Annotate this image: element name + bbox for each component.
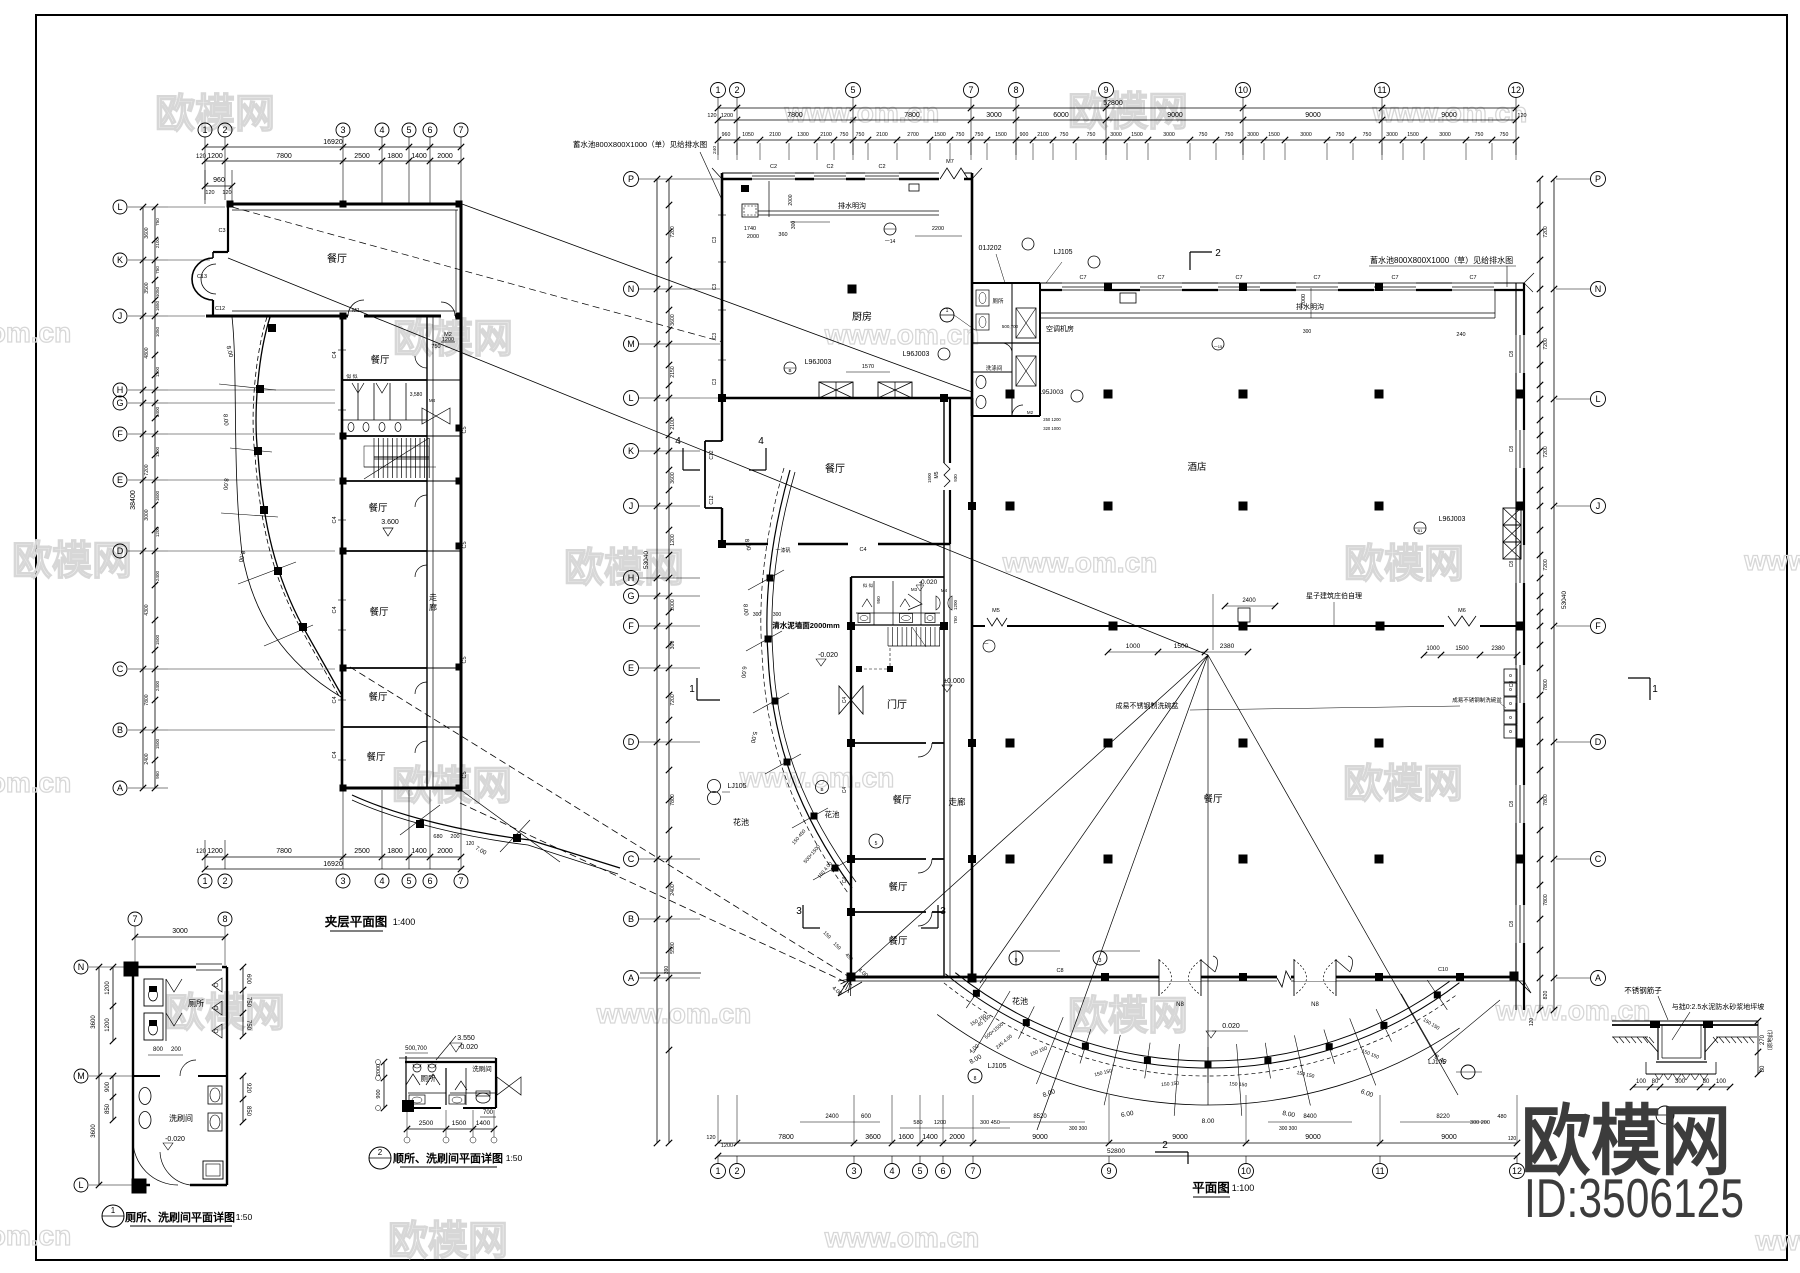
svg-text:1570: 1570	[862, 364, 874, 370]
svg-text:3600: 3600	[144, 227, 150, 238]
svg-text:1650: 1650	[155, 300, 160, 311]
svg-text:排水明沟: 排水明沟	[838, 201, 866, 210]
svg-text:7800: 7800	[1543, 794, 1549, 806]
svg-text:餐厅: 餐厅	[892, 794, 912, 806]
svg-text:600: 600	[245, 974, 251, 985]
svg-text:1200: 1200	[155, 366, 160, 377]
svg-text:顺所、洗刷间平面详图: 顺所、洗刷间平面详图	[393, 1151, 503, 1165]
svg-text:www.om.cn: www.om.cn	[824, 1222, 980, 1253]
svg-text:6000: 6000	[1053, 112, 1069, 119]
svg-text:M6: M6	[1458, 608, 1466, 614]
svg-text:3500: 3500	[144, 282, 150, 293]
svg-text:1: 1	[689, 684, 695, 695]
svg-text:38400: 38400	[130, 490, 137, 510]
svg-text:5: 5	[875, 841, 878, 847]
svg-text:www.om.cn: www.om.cn	[824, 319, 980, 350]
svg-text:240: 240	[712, 146, 718, 154]
svg-text:J: J	[629, 501, 634, 511]
svg-text:C4: C4	[332, 696, 338, 703]
svg-text:1: 1	[111, 1206, 116, 1215]
svg-text:7800: 7800	[276, 153, 292, 160]
svg-text:C4: C4	[842, 787, 848, 794]
svg-text:16920: 16920	[323, 139, 343, 146]
svg-text:似 似: 似 似	[346, 374, 357, 380]
svg-text:2400: 2400	[155, 680, 160, 691]
svg-text:M3: M3	[911, 587, 918, 592]
svg-text:1: 1	[946, 308, 949, 314]
svg-text:6: 6	[427, 876, 432, 886]
svg-text:100: 100	[1636, 1079, 1647, 1085]
svg-text:洗涤间: 洗涤间	[986, 364, 1003, 372]
svg-text:300: 300	[791, 221, 797, 230]
svg-text:餐厅: 餐厅	[368, 691, 388, 703]
svg-text:C3: C3	[712, 379, 718, 386]
svg-text:01J202: 01J202	[979, 245, 1002, 252]
svg-text:2400: 2400	[670, 884, 676, 896]
svg-text:1300: 1300	[797, 132, 809, 138]
svg-text:C2: C2	[878, 164, 885, 170]
svg-text:om.cn: om.cn	[0, 317, 71, 348]
svg-text:11: 11	[1375, 1166, 1384, 1176]
svg-text:欧模网: 欧模网	[564, 546, 684, 590]
svg-text:www.om.cn: www.om.cn	[739, 762, 895, 793]
svg-text:1: 1	[202, 876, 207, 886]
svg-text:空调机房: 空调机房	[1046, 324, 1074, 333]
svg-text:920: 920	[245, 1083, 251, 1094]
svg-text:7200: 7200	[1543, 338, 1549, 350]
svg-text:900: 900	[1020, 132, 1029, 138]
svg-text:1800: 1800	[387, 153, 403, 160]
svg-text:4300: 4300	[144, 604, 150, 615]
svg-text:3000: 3000	[1110, 132, 1122, 138]
svg-text:8220: 8220	[1436, 1114, 1450, 1120]
svg-text:960: 960	[722, 132, 731, 138]
svg-text:52800: 52800	[1103, 100, 1123, 107]
svg-text:K: K	[117, 255, 123, 265]
svg-text:52800: 52800	[1107, 1148, 1125, 1155]
svg-text:100: 100	[1716, 1079, 1727, 1085]
svg-text:走: 走	[429, 593, 437, 602]
svg-text:2: 2	[1162, 1140, 1168, 1151]
svg-text:1500: 1500	[1174, 643, 1189, 650]
svg-text:6: 6	[940, 1166, 945, 1176]
svg-text:1400: 1400	[476, 1120, 491, 1127]
svg-text:7800: 7800	[1543, 894, 1549, 906]
svg-text:C8: C8	[1509, 681, 1515, 688]
svg-text:1200: 1200	[105, 981, 111, 995]
svg-text:5: 5	[917, 1166, 922, 1176]
svg-text:L95J003: L95J003	[1039, 389, 1064, 396]
svg-text:D: D	[1595, 737, 1602, 747]
svg-text:750: 750	[245, 997, 251, 1008]
svg-text:3000: 3000	[172, 928, 188, 935]
svg-text:3: 3	[851, 1166, 856, 1176]
svg-text:1500: 1500	[1268, 132, 1280, 138]
svg-text:欧模网: 欧模网	[1068, 994, 1188, 1038]
svg-text:1: 1	[1652, 684, 1658, 695]
svg-text:1200: 1200	[105, 1018, 111, 1032]
svg-text:8: 8	[1013, 85, 1018, 95]
svg-text:D: D	[628, 737, 635, 747]
svg-text:7200: 7200	[144, 464, 150, 475]
svg-text:与拙0:2.5水泥防水砂浆地坪坡: 与拙0:2.5水泥防水砂浆地坪坡	[1672, 1002, 1765, 1011]
svg-text:3: 3	[796, 906, 802, 917]
svg-text:600: 600	[861, 1114, 872, 1120]
svg-text:3600: 3600	[670, 314, 676, 326]
svg-text:120: 120	[196, 154, 207, 160]
svg-text:200: 200	[171, 1047, 182, 1053]
svg-text:C3: C3	[218, 228, 225, 234]
svg-text:7: 7	[458, 125, 463, 135]
svg-text:16920: 16920	[323, 861, 343, 868]
svg-text:C7: C7	[1313, 275, 1320, 281]
svg-text:7200: 7200	[1543, 226, 1549, 238]
svg-text:餐厅: 餐厅	[888, 881, 908, 893]
svg-text:750: 750	[1199, 132, 1208, 138]
svg-text:厕所: 厕所	[992, 297, 1004, 305]
svg-text:L: L	[117, 202, 122, 212]
svg-text:8: 8	[222, 914, 227, 924]
svg-text:120: 120	[707, 113, 716, 119]
svg-text:850: 850	[105, 1103, 111, 1114]
svg-text:6: 6	[427, 125, 432, 135]
svg-text:900: 900	[105, 1081, 111, 1092]
svg-text:酒店: 酒店	[1187, 461, 1206, 473]
svg-text:1500: 1500	[995, 132, 1007, 138]
svg-text:夹层平面图: 夹层平面图	[325, 914, 388, 929]
svg-text:餐厅: 餐厅	[366, 751, 386, 763]
svg-text:C7: C7	[1079, 275, 1086, 281]
svg-text:3000: 3000	[1163, 132, 1175, 138]
svg-text:320 1000: 320 1000	[1043, 426, 1061, 431]
svg-text:3600: 3600	[91, 1015, 97, 1029]
svg-text:E: E	[117, 475, 123, 485]
svg-text:3000: 3000	[986, 112, 1002, 119]
svg-text:7800: 7800	[1543, 679, 1549, 691]
svg-text:120: 120	[1517, 113, 1526, 119]
svg-text:-0.020: -0.020	[165, 1136, 185, 1143]
svg-text:2000: 2000	[437, 153, 453, 160]
svg-text:C12: C12	[709, 495, 715, 504]
svg-text:C4: C4	[842, 697, 848, 704]
svg-text:清水泥墙面2000mm: 清水泥墙面2000mm	[772, 620, 840, 630]
svg-text:一14: 一14	[885, 239, 896, 245]
svg-text:P: P	[1595, 174, 1601, 184]
svg-text:950: 950	[876, 596, 881, 604]
svg-text:LJ105: LJ105	[1053, 249, 1072, 256]
svg-text:1400: 1400	[922, 1134, 938, 1141]
svg-text:1:100: 1:100	[1232, 1183, 1255, 1193]
svg-text:C7: C7	[1157, 275, 1164, 281]
svg-text:9000: 9000	[1441, 1134, 1457, 1141]
svg-text:欧模网: 欧模网	[388, 1219, 508, 1263]
svg-text:C4: C4	[332, 751, 338, 758]
svg-text:平面图: 平面图	[1192, 1181, 1230, 1195]
svg-text:3: 3	[340, 125, 345, 135]
svg-text:3: 3	[1099, 958, 1102, 964]
svg-text:9000: 9000	[1305, 112, 1321, 119]
svg-text:C4: C4	[859, 547, 866, 553]
svg-text:1200: 1200	[155, 446, 160, 457]
svg-text:120: 120	[222, 190, 231, 196]
svg-text:53040: 53040	[1561, 591, 1568, 609]
svg-text:C8: C8	[1509, 446, 1515, 453]
svg-text:H: H	[117, 385, 124, 395]
svg-text:2000: 2000	[376, 1064, 382, 1076]
svg-text:7: 7	[968, 85, 973, 95]
svg-text:300 450: 300 450	[980, 1120, 1000, 1126]
svg-text:www.o: www.o	[1743, 545, 1800, 576]
svg-text:L96J003: L96J003	[1439, 516, 1466, 523]
svg-text:C5: C5	[462, 771, 468, 778]
svg-text:2100: 2100	[820, 132, 832, 138]
svg-text:200: 200	[450, 834, 459, 840]
svg-text:500,700: 500,700	[405, 1046, 427, 1052]
svg-text:B: B	[628, 914, 634, 924]
svg-text:300 300: 300 300	[1279, 1126, 1297, 1132]
svg-text:7200: 7200	[670, 694, 676, 706]
svg-text:1200: 1200	[155, 526, 160, 537]
svg-text:750: 750	[856, 132, 865, 138]
svg-text:7200: 7200	[1543, 559, 1549, 571]
svg-text:750: 750	[1500, 132, 1509, 138]
svg-text:9: 9	[1106, 1166, 1111, 1176]
svg-text:500,700: 500,700	[1002, 324, 1019, 329]
svg-text:7: 7	[458, 876, 463, 886]
svg-text:1000: 1000	[1126, 643, 1141, 650]
svg-text:750: 750	[840, 132, 849, 138]
svg-text:1200: 1200	[721, 113, 733, 119]
svg-text:M7: M7	[946, 159, 954, 165]
svg-text:8.00: 8.00	[221, 414, 228, 427]
svg-text:8.00: 8.00	[741, 604, 748, 617]
svg-text:2: 2	[734, 1166, 739, 1176]
svg-text:2100: 2100	[1037, 132, 1049, 138]
svg-text:53040: 53040	[643, 551, 650, 569]
svg-text:270: 270	[1760, 1034, 1766, 1045]
svg-text:门厅: 门厅	[887, 698, 907, 711]
svg-text:星子建筑庄伯自理: 星子建筑庄伯自理	[1306, 591, 1362, 600]
svg-text:1400: 1400	[411, 153, 427, 160]
svg-text:10: 10	[1241, 1166, 1251, 1176]
svg-text:欧模网: 欧模网	[155, 92, 275, 136]
svg-text:C8: C8	[1509, 351, 1515, 358]
svg-text:2000: 2000	[670, 599, 676, 611]
svg-text:C4: C4	[332, 606, 338, 613]
svg-text:不锈钢筋子: 不锈钢筋子	[1624, 985, 1662, 995]
svg-text:www.om.cn: www.om.cn	[1002, 547, 1158, 578]
svg-text:1500: 1500	[1131, 132, 1143, 138]
svg-text:9000: 9000	[1305, 1134, 1321, 1141]
svg-text:5: 5	[406, 876, 411, 886]
svg-text:J: J	[1596, 501, 1601, 511]
svg-text:J: J	[118, 311, 123, 321]
svg-text:餐厅: 餐厅	[368, 502, 388, 514]
svg-text:300: 300	[1675, 1079, 1686, 1085]
svg-text:1050: 1050	[742, 132, 754, 138]
svg-text:B1: B1	[1418, 528, 1424, 533]
svg-text:7800: 7800	[778, 1134, 794, 1141]
svg-text:C4: C4	[332, 516, 338, 523]
svg-text:C5: C5	[462, 426, 468, 433]
svg-text:7800: 7800	[276, 848, 292, 855]
svg-text:3000: 3000	[1439, 132, 1451, 138]
svg-text:7200: 7200	[1543, 446, 1549, 458]
svg-text:2700: 2700	[907, 132, 919, 138]
svg-text:3600: 3600	[91, 1124, 97, 1138]
svg-text:750: 750	[956, 132, 965, 138]
svg-text:走廊: 走廊	[948, 797, 966, 807]
svg-text:680: 680	[433, 834, 442, 840]
svg-text:4: 4	[675, 436, 681, 447]
svg-text:120: 120	[466, 841, 475, 847]
svg-text:N: N	[1595, 284, 1602, 294]
svg-text:750: 750	[1475, 132, 1484, 138]
svg-text:4800: 4800	[144, 347, 150, 358]
svg-text:2100: 2100	[769, 132, 781, 138]
svg-text:M2: M2	[1027, 410, 1034, 415]
svg-text:950: 950	[155, 771, 160, 779]
svg-text:300: 300	[1303, 329, 1312, 335]
svg-text:250 1200: 250 1200	[1043, 417, 1061, 422]
svg-text:1500: 1500	[155, 738, 160, 749]
svg-text:H: H	[628, 573, 635, 583]
svg-text:2000: 2000	[1301, 294, 1307, 306]
svg-text:A: A	[117, 783, 123, 793]
svg-text:1: 1	[202, 125, 207, 135]
svg-text:2: 2	[378, 1148, 383, 1157]
svg-text:C2: C2	[826, 164, 833, 170]
svg-text:300: 300	[670, 641, 676, 650]
svg-text:960: 960	[213, 177, 225, 184]
svg-text:1200: 1200	[953, 599, 958, 610]
svg-text:成易不锈钢制洗碗盆: 成易不锈钢制洗碗盆	[1452, 696, 1502, 704]
svg-text:花池: 花池	[1012, 996, 1028, 1006]
svg-text:300: 300	[753, 612, 762, 618]
svg-text:240: 240	[1456, 332, 1465, 338]
svg-text:700: 700	[483, 1110, 494, 1116]
svg-text:C: C	[1595, 854, 1602, 864]
svg-text:C3: C3	[712, 284, 718, 291]
svg-text:2100: 2100	[876, 132, 888, 138]
svg-text:4: 4	[889, 1166, 894, 1176]
svg-text:LJ105: LJ105	[987, 1063, 1006, 1070]
svg-text:L: L	[628, 393, 633, 403]
svg-text:LJ105: LJ105	[1428, 1059, 1446, 1066]
svg-text:欧模网: 欧模网	[1344, 542, 1464, 586]
svg-text:E: E	[628, 663, 634, 673]
svg-text:820: 820	[1543, 991, 1549, 1000]
svg-text:M4: M4	[941, 588, 948, 593]
svg-text:1:400: 1:400	[393, 917, 416, 927]
svg-text:2200: 2200	[932, 226, 944, 232]
svg-text:花池: 花池	[825, 809, 840, 819]
svg-text:750: 750	[1336, 132, 1345, 138]
svg-text:蓄水池800X800X1000（草）见给排水图: 蓄水池800X800X1000（草）见给排水图	[1370, 255, 1513, 265]
svg-text:N: N	[78, 962, 85, 972]
svg-text:2: 2	[734, 85, 739, 95]
svg-text:1200: 1200	[934, 1120, 946, 1126]
svg-text:150 150: 150 150	[1229, 1081, 1248, 1088]
svg-text:M: M	[627, 339, 635, 349]
svg-text:1:50: 1:50	[236, 1212, 253, 1222]
svg-text:9000: 9000	[1167, 112, 1183, 119]
svg-text:2500: 2500	[354, 153, 370, 160]
svg-text:2400: 2400	[155, 570, 160, 581]
svg-text:om.cn: om.cn	[0, 1220, 71, 1251]
svg-text:300 300: 300 300	[1069, 1126, 1087, 1132]
svg-text:2380: 2380	[1491, 646, 1505, 652]
svg-text:±0.000: ±0.000	[943, 678, 964, 685]
svg-text:C7: C7	[1469, 275, 1476, 281]
svg-text:C8: C8	[1056, 968, 1063, 974]
svg-text:6.00: 6.00	[739, 666, 746, 679]
svg-text:3.550: 3.550	[457, 1035, 475, 1042]
svg-text:G: G	[627, 591, 634, 601]
svg-text:厕所: 厕所	[188, 998, 204, 1008]
svg-text:120: 120	[706, 1135, 715, 1141]
svg-text:3,580: 3,580	[410, 392, 423, 398]
svg-text:750: 750	[1087, 132, 1096, 138]
svg-text:D: D	[117, 546, 124, 556]
svg-text:2: 2	[1215, 248, 1221, 259]
svg-text:-0.020: -0.020	[458, 1044, 478, 1051]
svg-text:3600: 3600	[865, 1134, 881, 1141]
svg-text:2000: 2000	[437, 848, 453, 855]
svg-text:2500: 2500	[354, 848, 370, 855]
svg-text:www.om.cn: www.om.cn	[596, 998, 752, 1029]
svg-text:1500: 1500	[934, 132, 946, 138]
svg-text:5500: 5500	[670, 942, 676, 954]
svg-text:M5: M5	[934, 471, 940, 478]
svg-text:餐厅: 餐厅	[370, 354, 390, 366]
svg-text:C8: C8	[1509, 801, 1515, 808]
svg-text:1600: 1600	[898, 1134, 914, 1141]
svg-text:8520: 8520	[1033, 1114, 1047, 1120]
svg-text:C3: C3	[712, 237, 718, 244]
svg-text:7800: 7800	[144, 694, 150, 705]
svg-text:A: A	[1595, 973, 1601, 983]
svg-text:80: 80	[1652, 1079, 1659, 1085]
svg-text:120: 120	[1529, 1018, 1535, 1027]
svg-text:C: C	[117, 664, 124, 674]
svg-text:C7: C7	[1391, 275, 1398, 281]
svg-text:120: 120	[205, 190, 214, 196]
svg-text:1500: 1500	[1455, 646, 1469, 652]
svg-text:2100: 2100	[670, 418, 676, 430]
svg-text:750: 750	[1225, 132, 1234, 138]
svg-text:C3: C3	[712, 333, 718, 340]
svg-text:8400: 8400	[1303, 1114, 1317, 1120]
svg-text:580: 580	[913, 1120, 922, 1126]
svg-text:3.600: 3.600	[381, 519, 399, 526]
svg-text:750: 750	[1363, 132, 1372, 138]
svg-text:2380: 2380	[1220, 643, 1235, 650]
svg-text:2000: 2000	[949, 1134, 965, 1141]
svg-text:300 200: 300 200	[1470, 1120, 1490, 1126]
svg-text:1200: 1200	[721, 1143, 733, 1149]
svg-text:www: www	[1754, 1225, 1800, 1256]
svg-text:餐厅: 餐厅	[327, 252, 347, 265]
svg-text:C5: C5	[462, 656, 468, 663]
svg-text:C: C	[628, 854, 635, 864]
svg-text:1500: 1500	[452, 1120, 467, 1127]
svg-text:花池: 花池	[733, 817, 749, 827]
svg-text:LJ105: LJ105	[727, 783, 746, 790]
svg-text:餐厅: 餐厅	[369, 606, 389, 618]
svg-text:2400: 2400	[155, 406, 160, 417]
svg-text:洗刷间: 洗刷间	[169, 1113, 193, 1123]
